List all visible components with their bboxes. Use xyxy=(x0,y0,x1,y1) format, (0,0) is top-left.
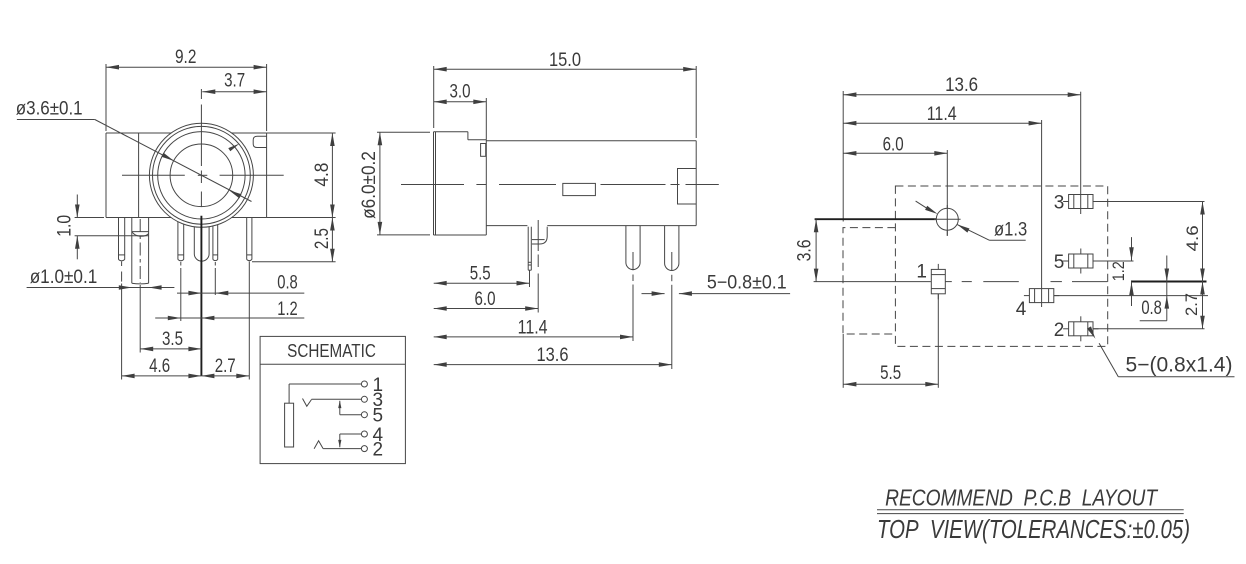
svg-text:6.0: 6.0 xyxy=(475,289,496,310)
dim 13.6 pcb ext right xyxy=(1080,92,1082,214)
svg-text:11.4: 11.4 xyxy=(518,318,548,339)
pad size leader xyxy=(1099,343,1118,377)
dim 5-0.8 line xyxy=(642,293,665,295)
front vertical centerline xyxy=(200,89,202,99)
side body mid rect xyxy=(563,183,596,195)
dim 11.4 line side xyxy=(434,336,633,338)
svg-text:3.5: 3.5 xyxy=(162,329,183,350)
dim 9.2 line xyxy=(106,66,267,68)
schematic wire pin5 with switch arrow xyxy=(340,414,362,416)
dim 11.4 pcb line xyxy=(843,122,1041,124)
dim dia6.0 line xyxy=(379,132,381,235)
pad 5 xyxy=(1069,254,1093,268)
svg-text:1: 1 xyxy=(916,261,927,282)
dim 15.0 extension left xyxy=(433,66,435,128)
svg-text:1.2: 1.2 xyxy=(1109,261,1128,281)
dim dia1.0 arrows xyxy=(119,285,132,290)
pin C (1.2 position) xyxy=(177,222,179,260)
side bent pin foot xyxy=(532,227,547,244)
svg-text:5.5: 5.5 xyxy=(470,263,491,284)
dim 2.7 pcb line xyxy=(1202,282,1204,329)
dim 13.6 pcb line xyxy=(843,94,1080,96)
dim dia6.0 extension top xyxy=(377,131,430,133)
dim dia6.0 extension bottom xyxy=(377,234,430,236)
svg-text:4: 4 xyxy=(1016,299,1027,320)
pad 3 xyxy=(1069,195,1093,209)
svg-text:4.6: 4.6 xyxy=(1183,225,1202,251)
center pin U shape xyxy=(194,227,209,261)
dim 1.0 extension top xyxy=(75,217,104,219)
pcb outline dashed rect xyxy=(895,186,1107,346)
dim 4.6 pcb line xyxy=(1202,202,1204,282)
schematic wire pin4 with switch arrow xyxy=(340,433,362,435)
svg-text:13.6: 13.6 xyxy=(537,345,569,366)
schematic terminal 5 circle xyxy=(361,412,367,418)
dim 3.0 line xyxy=(434,101,487,103)
svg-text:2.7: 2.7 xyxy=(215,356,236,377)
front view body outline xyxy=(106,132,267,134)
dim 3.7 line xyxy=(202,91,266,93)
pcb left dashed box xyxy=(843,228,895,334)
U-pin 13.6 dashed centerline xyxy=(671,252,673,271)
svg-text:5.5: 5.5 xyxy=(880,363,901,384)
svg-text:2: 2 xyxy=(373,440,384,461)
dim 1.0 line xyxy=(76,195,78,218)
side U-pin 13.6 xyxy=(665,226,679,271)
pad 4 xyxy=(1029,289,1053,303)
svg-text:3.0: 3.0 xyxy=(450,81,471,102)
dim 5.5 extension xyxy=(529,270,531,287)
dim 9.2 extension right xyxy=(266,64,268,131)
svg-text:0.8: 0.8 xyxy=(1141,298,1162,319)
svg-text:2: 2 xyxy=(1054,320,1065,341)
dim 3.6 pcb line xyxy=(815,219,817,281)
front horizontal centerline xyxy=(122,174,185,176)
schematic terminal 3 circle xyxy=(361,396,367,402)
dim 4.6 line xyxy=(122,375,202,377)
pcb axis thick right segment xyxy=(1131,281,1207,283)
arrow dia3.6 lower-right on hole circle xyxy=(229,190,242,198)
dim 3.5 line xyxy=(140,348,201,350)
pin A dashed centerline xyxy=(121,262,123,267)
svg-text:4.8: 4.8 xyxy=(312,163,333,187)
svg-text:0.8: 0.8 xyxy=(277,273,298,294)
svg-text:5: 5 xyxy=(1054,252,1065,273)
front body top-right notch xyxy=(253,136,266,147)
svg-text:13.6: 13.6 xyxy=(945,75,978,96)
side flange boss rect xyxy=(481,144,486,157)
svg-text:RECOMMEND P.C.B LAYOUT: RECOMMEND P.C.B LAYOUT xyxy=(885,485,1158,511)
dim 0.8 pcb line xyxy=(1166,256,1168,321)
pin D dashed centerline xyxy=(214,262,216,266)
svg-text:6.0: 6.0 xyxy=(883,134,904,155)
pcb left extension line xyxy=(842,91,844,222)
dim 2.5 line xyxy=(331,218,333,262)
dim 6.0 pcb line xyxy=(843,152,947,154)
dim 0.8 line xyxy=(177,292,304,294)
front body inner edge line xyxy=(138,133,140,218)
hole leader lower line xyxy=(957,224,990,240)
side flange outline xyxy=(434,131,468,133)
svg-text:ø3.6±0.1: ø3.6±0.1 xyxy=(16,99,83,120)
dim 15.0 extension right xyxy=(695,66,697,138)
svg-text:ø1.3: ø1.3 xyxy=(994,220,1027,241)
svg-text:ø6.0±0.2: ø6.0±0.2 xyxy=(359,151,380,219)
pcb axis dashed segments xyxy=(962,281,972,283)
dim dia1.0 leader line xyxy=(27,287,175,289)
pcb hole crosshair xyxy=(946,205,948,236)
side body outline xyxy=(486,140,696,142)
dim 2.7 line xyxy=(201,375,249,377)
jack barrel second circle xyxy=(153,126,251,224)
pin C dashed centerline xyxy=(180,262,182,266)
pin E (2.7 position) xyxy=(246,218,248,260)
dim 1.2 line xyxy=(155,317,304,319)
schematic sleeve rect xyxy=(285,403,294,447)
svg-text:5: 5 xyxy=(373,406,384,427)
svg-text:2.7: 2.7 xyxy=(1182,293,1201,316)
jack barrel outer circle xyxy=(149,123,253,227)
svg-text:15.0: 15.0 xyxy=(549,50,581,71)
schematic terminal 2 circle xyxy=(361,446,367,452)
center thick axis line xyxy=(200,216,202,376)
pin E extension line xyxy=(248,262,250,380)
svg-text:5−(0.8x1.4): 5−(0.8x1.4) xyxy=(1126,354,1233,377)
dim 6.0 pcb ext (hole centerline) xyxy=(946,150,948,236)
dim 3.0 extension right xyxy=(485,98,487,140)
pin D (0.8 position) xyxy=(212,226,214,259)
svg-text:1.2: 1.2 xyxy=(277,299,298,320)
dim 15.0 line xyxy=(434,68,697,70)
side U-pin 11.4 xyxy=(626,226,640,270)
dim 1.0 extension bottom xyxy=(75,235,149,237)
svg-text:9.2: 9.2 xyxy=(175,47,196,68)
svg-text:5−0.8±0.1: 5−0.8±0.1 xyxy=(707,273,787,294)
leader line dia3.6 label xyxy=(17,119,95,121)
side thin pin xyxy=(527,227,529,271)
dim 6.0 line side xyxy=(434,308,539,310)
pcb hole dia1.3 circle xyxy=(936,208,958,230)
side body right notch xyxy=(678,169,697,205)
svg-text:3.6: 3.6 xyxy=(794,239,815,261)
dim 4.8 extension mid xyxy=(267,217,336,219)
pad 2 xyxy=(1069,322,1093,336)
schematic terminal 4 circle xyxy=(361,431,367,437)
pin B dash-dot centerline xyxy=(139,219,141,283)
svg-text:3.7: 3.7 xyxy=(224,70,245,91)
svg-text:1.0: 1.0 xyxy=(55,215,76,237)
dim 5.5 pcb line xyxy=(843,383,938,385)
svg-text:ø1.0±0.1: ø1.0±0.1 xyxy=(30,267,98,288)
svg-text:2.5: 2.5 xyxy=(312,228,333,249)
arrow dia3.6 upper-left on hole circle xyxy=(161,153,174,161)
schematic wire pin1 xyxy=(289,383,361,385)
schematic wire pin3 with tip contact xyxy=(312,398,362,400)
schematic wire pin2 with ring contact xyxy=(323,448,361,450)
arrow on second circle top-right xyxy=(228,144,239,152)
shield pin B dia1.0 xyxy=(131,218,133,284)
side pin dash-dot centerline 6.0 xyxy=(537,220,539,251)
side centerline dash-dot xyxy=(401,184,464,186)
schematic box xyxy=(260,336,405,463)
U-pin 11.4 dashed centerline xyxy=(632,252,634,270)
jack hole circle dia 3.6 xyxy=(170,144,233,207)
svg-text:11.4: 11.4 xyxy=(927,104,957,125)
dim 5.5 line side xyxy=(434,282,530,284)
svg-text:SCHEMATIC: SCHEMATIC xyxy=(287,341,376,361)
dim 4.8 extension top xyxy=(267,132,336,134)
schematic terminal 1 circle xyxy=(361,381,367,387)
hole leader upper arrow xyxy=(916,201,929,209)
svg-text:4.6: 4.6 xyxy=(149,356,170,377)
svg-text:3: 3 xyxy=(1054,192,1065,213)
jack barrel third circle xyxy=(158,132,245,219)
dim 11.4 pcb ext right xyxy=(1041,120,1043,307)
pad 1 xyxy=(931,269,945,293)
pin A (4.6 position) xyxy=(118,217,120,259)
pcb thick axis line xyxy=(815,218,937,220)
dim 9.2 extension left xyxy=(105,64,107,131)
dim 3.6 pcb ext bottom xyxy=(814,281,931,283)
svg-text:TOP VIEW(TOLERANCES:±0.05): TOP VIEW(TOLERANCES:±0.05) xyxy=(877,514,1190,544)
dim 13.6 line side xyxy=(434,364,672,366)
dim 4.8 line xyxy=(331,133,333,218)
dim 2.5 extension bottom xyxy=(252,261,336,263)
title underline double xyxy=(877,509,1184,511)
dim 1.2 pcb line xyxy=(1131,237,1133,261)
